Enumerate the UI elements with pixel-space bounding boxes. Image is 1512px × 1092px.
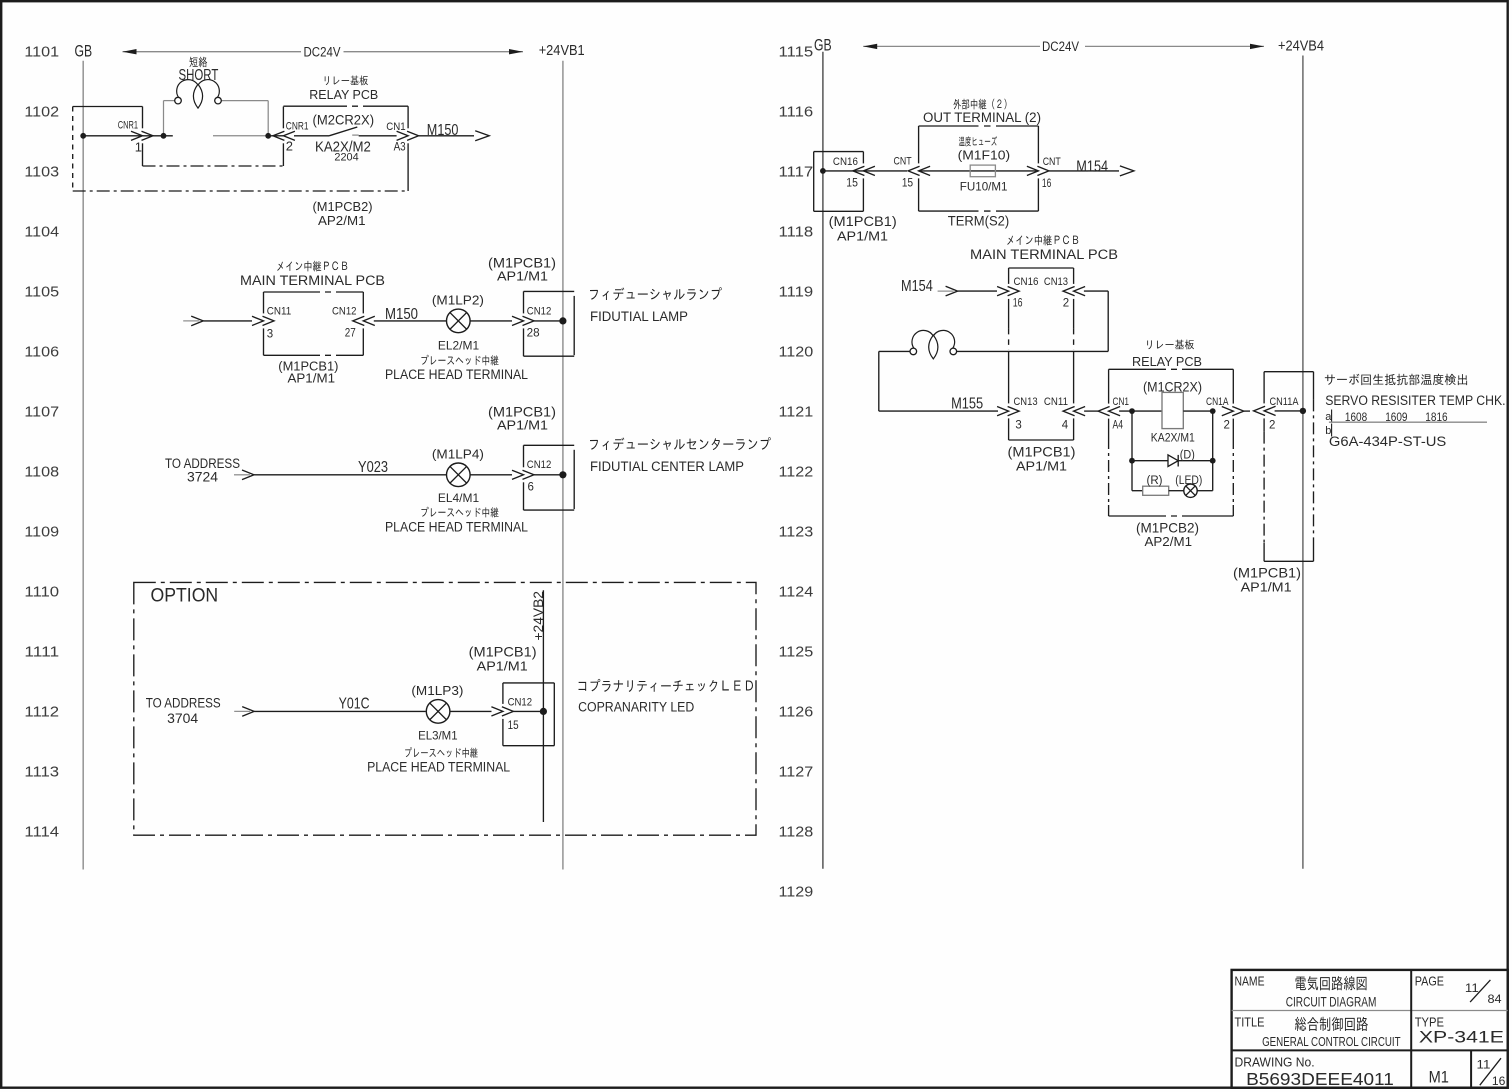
- pcb box CN12 option (M1PCB1): [502, 683, 504, 704]
- label out terminal 2: [954, 99, 1007, 110]
- led lamp (LED): [1184, 484, 1197, 497]
- junction dot on GB bus row 1102: [80, 133, 86, 139]
- connector CN11 pin 3 chevrons: [252, 316, 264, 325]
- wire in to CN11: [203, 320, 252, 322]
- wire Y01C to lamp EL3: [254, 710, 425, 712]
- wire dot to CNR1 pin2: [268, 135, 283, 137]
- svg-text:AP1/M1: AP1/M1: [497, 269, 548, 284]
- svg-text:MAIN TERMINAL PCB: MAIN TERMINAL PCB: [240, 273, 385, 288]
- connector CN12 pin 28 chevrons: [512, 316, 524, 325]
- svg-text:(M1PCB1): (M1PCB1): [469, 644, 537, 659]
- label relay pcb (left): [325, 76, 368, 86]
- svg-text:CN11A: CN11A: [1270, 396, 1300, 408]
- svg-text:Y023: Y023: [358, 459, 388, 476]
- svg-text:1101: 1101: [24, 44, 59, 61]
- svg-text:XP-341E: XP-341E: [1419, 1027, 1504, 1046]
- junction dot on +24VB4: [1300, 408, 1306, 414]
- svg-text:M1: M1: [1429, 1069, 1449, 1087]
- svg-text:AP1/M1: AP1/M1: [837, 229, 888, 244]
- connector CNT pin 15 chevrons: [919, 166, 931, 175]
- svg-text:M154: M154: [1076, 159, 1108, 176]
- pcb boundary bottom dash-dot M1PCB2: [73, 190, 408, 192]
- wire CN11 to relay CN1: [1084, 410, 1098, 412]
- svg-text:+24VB1: +24VB1: [539, 42, 585, 59]
- connector CN1A pin 2 chevrons: [1222, 407, 1234, 416]
- bus GB right vertical: [822, 52, 824, 869]
- lamp EL4/M1 (M1LP4): [447, 463, 471, 487]
- underline gray node a: [1329, 421, 1487, 423]
- lamp EL2/M1 (M1LP2): [447, 309, 471, 333]
- label place head terminal row1108: [421, 507, 498, 518]
- svg-text:1103: 1103: [24, 164, 59, 181]
- svg-text:RELAY PCB: RELAY PCB: [1132, 354, 1202, 369]
- svg-text:6: 6: [528, 481, 534, 493]
- svg-text:16: 16: [1013, 297, 1023, 309]
- wire CN12 to +24VB2: [513, 710, 543, 712]
- title block outline: [1232, 970, 1508, 1088]
- svg-text:CN12: CN12: [527, 305, 552, 317]
- svg-text:AP1/M1: AP1/M1: [497, 418, 548, 433]
- pcb box CN16 row1117 (M1PCB1): [814, 151, 864, 153]
- svg-text:TITLE: TITLE: [1235, 1015, 1265, 1029]
- svg-text:FIDUTIAL LAMP: FIDUTIAL LAMP: [590, 309, 688, 324]
- svg-text:16: 16: [1042, 178, 1051, 190]
- svg-text:GB: GB: [75, 43, 93, 61]
- pcb box M1PCB1 row1105: [264, 291, 315, 293]
- svg-text:PLACE HEAD TERMINAL: PLACE HEAD TERMINAL: [385, 367, 528, 382]
- title japanese general control circuit: [1295, 1017, 1368, 1031]
- svg-text:3704: 3704: [167, 711, 199, 726]
- connector CN13 pin 2 chevrons row1119: [1074, 287, 1086, 296]
- svg-text:EL2/M1: EL2/M1: [438, 339, 479, 353]
- connector CN11A pin 2 chevrons: [1264, 406, 1276, 415]
- connector CNT pin 16 chevrons: [1027, 166, 1039, 175]
- pcb box relay right outline: [1109, 368, 1160, 370]
- label relay pcb (right): [1147, 340, 1194, 350]
- connector CN12 pin 15 chevrons option: [491, 707, 503, 716]
- svg-text:G6A-434P-ST-US: G6A-434P-ST-US: [1329, 434, 1446, 449]
- junction dot on +24VB1 row1108: [559, 471, 566, 478]
- svg-text:EL4/M1: EL4/M1: [438, 491, 479, 505]
- label tanraku SHORT: [190, 57, 208, 68]
- svg-text:1125: 1125: [779, 644, 814, 661]
- bus +24VB2 line: [542, 590, 544, 822]
- svg-text:M155: M155: [951, 395, 983, 412]
- svg-text:1129: 1129: [779, 884, 814, 901]
- svg-text:1124: 1124: [779, 584, 814, 601]
- wire M150 out: [419, 135, 474, 137]
- pcb box M1PCB2 relay outline: [282, 107, 284, 129]
- jumper SHORT symbol: [164, 100, 175, 102]
- svg-text:1117: 1117: [779, 164, 814, 181]
- svg-text:(M2CR2X): (M2CR2X): [313, 112, 375, 127]
- junction dot on GB bus row1117: [820, 168, 826, 174]
- svg-text:(M1LP3): (M1LP3): [411, 683, 463, 698]
- svg-text:AP2/M1: AP2/M1: [318, 213, 366, 228]
- junction dot coil right: [1210, 408, 1216, 414]
- signal-in arrow row1105: [183, 320, 199, 322]
- svg-text:1115: 1115: [779, 44, 814, 61]
- svg-text:2: 2: [1269, 419, 1275, 431]
- svg-text:AP1/M1: AP1/M1: [288, 370, 336, 385]
- svg-text:1111: 1111: [24, 644, 59, 661]
- svg-text:1122: 1122: [779, 464, 814, 481]
- wire lamp to CN12 box row1105: [470, 320, 512, 322]
- wire M154 to CN16: [958, 290, 997, 292]
- svg-text:1123: 1123: [779, 524, 814, 541]
- junction dot right of SHORT: [265, 133, 271, 139]
- svg-text:CN1: CN1: [1113, 396, 1130, 408]
- svg-text:1119: 1119: [779, 284, 814, 301]
- svg-text:CN13: CN13: [1014, 396, 1038, 408]
- connector CN12 pin 6 chevrons row1108: [512, 470, 524, 479]
- svg-text:CN11: CN11: [267, 305, 292, 317]
- svg-text:1: 1: [135, 139, 142, 154]
- svg-text:1128: 1128: [779, 824, 814, 841]
- wire CN1A to CN11A: [1244, 410, 1250, 412]
- svg-text:Y01C: Y01C: [339, 696, 370, 713]
- svg-text:GENERAL CONTROL CIRCUIT: GENERAL CONTROL CIRCUIT: [1262, 1034, 1401, 1049]
- svg-text:CNT: CNT: [894, 156, 912, 168]
- svg-text:84: 84: [1488, 992, 1502, 1006]
- connector CN1 pin A4 chevrons: [1109, 407, 1121, 416]
- wire loop CN13-2 to jumper: [1084, 290, 1108, 292]
- svg-text:AP1/M1: AP1/M1: [477, 658, 528, 673]
- bus GB left vertical: [82, 61, 84, 870]
- svg-text:A3: A3: [394, 142, 406, 154]
- label copranarity led: [579, 679, 754, 692]
- connector CN1 pin A3 chevrons: [397, 131, 409, 140]
- svg-text:CNR1: CNR1: [118, 119, 138, 131]
- svg-text:PLACE HEAD TERMINAL: PLACE HEAD TERMINAL: [367, 760, 510, 775]
- svg-text:1105: 1105: [24, 284, 59, 301]
- wire CN11A to +24VB4 bus: [1275, 410, 1303, 412]
- label main terminal pcb (right): [1007, 235, 1078, 246]
- svg-text:27: 27: [345, 328, 356, 340]
- svg-text:1104: 1104: [24, 224, 59, 241]
- svg-text:(M1PCB1): (M1PCB1): [1008, 445, 1076, 460]
- svg-text:CN16: CN16: [833, 156, 858, 168]
- svg-text:(M1PCB1): (M1PCB1): [829, 214, 897, 229]
- svg-text:1120: 1120: [779, 344, 814, 361]
- svg-text:KA2X/M1: KA2X/M1: [1151, 431, 1195, 445]
- fuse M1F10 FU10/M1: [919, 170, 1039, 172]
- svg-text:AP2/M1: AP2/M1: [1145, 534, 1193, 549]
- signal-in arrow option row: [234, 710, 250, 712]
- svg-text:(M1PCB2): (M1PCB2): [313, 199, 373, 214]
- svg-text:CNR1: CNR1: [286, 121, 309, 133]
- label place head terminal option: [405, 747, 478, 758]
- connector CNR1 pin 1 chevrons: [131, 131, 143, 140]
- svg-text:M154: M154: [901, 278, 933, 295]
- DC24V header line left: [123, 51, 302, 53]
- svg-text:1108: 1108: [24, 464, 59, 481]
- svg-text:3724: 3724: [187, 469, 219, 484]
- svg-text:1114: 1114: [24, 824, 59, 841]
- svg-text:TO ADDRESS: TO ADDRESS: [146, 695, 221, 710]
- wire Y023 to lamp EL4: [254, 474, 446, 476]
- diode (D): [1168, 455, 1178, 467]
- svg-text:(LED): (LED): [1175, 475, 1202, 487]
- svg-text:15: 15: [902, 177, 913, 189]
- svg-text:FU10/M1: FU10/M1: [960, 180, 1008, 194]
- svg-text:1110: 1110: [24, 584, 59, 601]
- svg-text:(M1F10): (M1F10): [958, 147, 1011, 162]
- junction dot diode left: [1129, 458, 1135, 464]
- snubber branch wires: [1131, 411, 1133, 491]
- jumper symbol row1120: [910, 348, 917, 355]
- signal-in arrow row1108: [234, 474, 250, 476]
- svg-text:CN1: CN1: [386, 121, 405, 133]
- connector CN16 pin 15 chevrons: [863, 166, 875, 175]
- title name japanese circuit diagram: [1296, 976, 1367, 990]
- pcb box main terminal right: [1009, 267, 1074, 269]
- svg-text:EL3/M1: EL3/M1: [418, 728, 458, 742]
- svg-text:COPRANARITY LED: COPRANARITY LED: [578, 699, 695, 714]
- option group dashed box: [134, 582, 756, 835]
- svg-text:1106: 1106: [24, 344, 59, 361]
- svg-text:CN13: CN13: [1044, 276, 1068, 288]
- signal-in arrow M154 row1119: [938, 290, 954, 292]
- svg-text:DC24V: DC24V: [1042, 39, 1079, 55]
- connector CN13 pin 3 chevrons row1121: [997, 407, 1009, 416]
- relay contact KA2X/M2 blade: [294, 135, 329, 137]
- svg-text:SHORT: SHORT: [179, 67, 219, 84]
- junction dot on +24VB2: [540, 708, 547, 715]
- svg-text:M150: M150: [385, 306, 418, 323]
- svg-text:2: 2: [286, 139, 293, 154]
- wire lamp to CN12 box row1108: [470, 474, 512, 476]
- pcb box CN11A (M1PCB1): [1264, 371, 1313, 373]
- svg-text:16: 16: [1492, 1074, 1506, 1088]
- svg-text:DRAWING No.: DRAWING No.: [1235, 1055, 1315, 1069]
- wire CN12 to +24VB1 bus row1108: [534, 474, 563, 476]
- svg-text:OPTION: OPTION: [151, 585, 219, 607]
- bus +24VB1 vertical: [562, 61, 564, 870]
- svg-text:(M1LP2): (M1LP2): [432, 293, 484, 308]
- svg-text:28: 28: [527, 328, 540, 340]
- svg-text:CN12: CN12: [332, 305, 357, 317]
- svg-text:3: 3: [1015, 419, 1021, 431]
- svg-text:AP1/M1: AP1/M1: [1241, 579, 1292, 594]
- svg-text:CN12: CN12: [508, 697, 532, 709]
- svg-text:1127: 1127: [779, 764, 814, 781]
- label fidutial center lamp: [590, 437, 771, 450]
- label main terminal pcb (row1105): [277, 261, 347, 272]
- label fidutial lamp: [590, 287, 722, 300]
- junction dot coil left: [1129, 408, 1135, 414]
- connector CN16 pin 16 chevrons row1119: [997, 287, 1009, 296]
- wire CN16 to TERM: [823, 170, 907, 172]
- connector CN11 pin 4 chevrons row1121: [1074, 407, 1086, 416]
- svg-text:11: 11: [1477, 1058, 1491, 1072]
- junction dot diode right: [1210, 458, 1216, 464]
- label place head terminal row1105: [421, 355, 498, 366]
- svg-text:1118: 1118: [779, 224, 814, 241]
- svg-text:AP1/M1: AP1/M1: [1016, 458, 1067, 473]
- svg-text:CN1A: CN1A: [1206, 396, 1229, 408]
- wire M154 out: [1049, 170, 1119, 172]
- wire lamp to CN12 box option: [450, 710, 492, 712]
- svg-text:1102: 1102: [24, 104, 59, 121]
- svg-text:(D): (D): [1180, 449, 1195, 461]
- svg-text:MAIN TERMINAL PCB: MAIN TERMINAL PCB: [970, 247, 1118, 262]
- svg-text:M150: M150: [427, 122, 459, 139]
- wire CN12 to lamp EL2: [374, 320, 447, 322]
- svg-text:15: 15: [846, 177, 858, 189]
- resistor (R): [1132, 490, 1143, 492]
- svg-text:PAGE: PAGE: [1415, 975, 1444, 989]
- svg-text:OUT TERMINAL (2): OUT TERMINAL (2): [923, 110, 1041, 125]
- svg-text:1116: 1116: [779, 104, 814, 121]
- label servo resisiter temp chk: [1325, 374, 1467, 385]
- connector CN12 pin 27 chevrons: [363, 316, 375, 325]
- svg-text:CIRCUIT DIAGRAM: CIRCUIT DIAGRAM: [1286, 995, 1377, 1011]
- svg-text:15: 15: [508, 720, 519, 732]
- wire GB to CNR1 pin1: [83, 135, 173, 137]
- DC24V header line right: [863, 45, 1040, 47]
- junction dot left of SHORT: [161, 133, 167, 139]
- svg-text:CN11: CN11: [1044, 396, 1068, 408]
- connector CNR1 pin 2 chevrons: [283, 131, 295, 140]
- svg-text:CNT: CNT: [1043, 156, 1061, 168]
- svg-text:1107: 1107: [24, 404, 59, 421]
- svg-text:DC24V: DC24V: [304, 45, 341, 61]
- svg-text:TERM(S2): TERM(S2): [948, 213, 1009, 228]
- svg-text:2: 2: [1063, 297, 1069, 309]
- svg-text:1126: 1126: [779, 704, 814, 721]
- pcb box TERM S2: [919, 125, 972, 127]
- svg-text:FIDUTIAL CENTER LAMP: FIDUTIAL CENTER LAMP: [590, 459, 744, 474]
- svg-text:2: 2: [1224, 419, 1230, 431]
- wire CN12 to +24VB1 bus: [534, 320, 563, 322]
- pcb boundary middle dash-dot: [143, 165, 284, 167]
- svg-text:3: 3: [267, 329, 273, 341]
- svg-text:RELAY PCB: RELAY PCB: [309, 87, 378, 102]
- pcb box CN12 row1108 (M1PCB1): [523, 445, 525, 467]
- pcb box M1PCB2 left outline: [73, 106, 143, 108]
- svg-text:(R): (R): [1147, 475, 1163, 487]
- svg-text:4: 4: [1062, 419, 1069, 431]
- svg-text:B5693DEEE4011: B5693DEEE4011: [1246, 1069, 1394, 1089]
- svg-text:NAME: NAME: [1235, 975, 1265, 989]
- svg-text:2204: 2204: [334, 151, 358, 163]
- svg-text:CN16: CN16: [1014, 276, 1039, 288]
- svg-text:1113: 1113: [24, 764, 59, 781]
- svg-text:1109: 1109: [24, 524, 59, 541]
- pcb box CN12 row1105 (M1PCB1): [523, 291, 525, 313]
- bus +24VB4 vertical: [1302, 56, 1304, 869]
- svg-text:1121: 1121: [779, 404, 814, 421]
- svg-text:PLACE HEAD TERMINAL: PLACE HEAD TERMINAL: [385, 519, 528, 534]
- svg-text:(M1LP4): (M1LP4): [432, 447, 484, 462]
- lamp EL3/M1 (M1LP3): [426, 700, 450, 724]
- svg-text:A4: A4: [1113, 419, 1124, 431]
- svg-text:SERVO RESISITER TEMP CHK.: SERVO RESISITER TEMP CHK.: [1325, 393, 1505, 408]
- svg-text:1112: 1112: [24, 704, 59, 721]
- junction dot on +24VB1 row1105: [559, 317, 566, 324]
- svg-text:CN12: CN12: [527, 459, 552, 471]
- svg-text:+24VB4: +24VB4: [1278, 37, 1324, 54]
- svg-text:11: 11: [1465, 981, 1479, 995]
